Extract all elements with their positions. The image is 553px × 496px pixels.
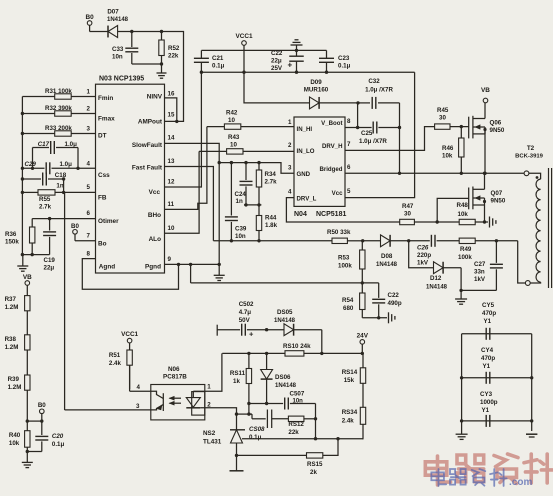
capacitor C21 0.1u <box>194 50 225 72</box>
node divider R40 <box>26 419 29 422</box>
svg-text:Y1: Y1 <box>484 318 492 325</box>
node pin2 RS11 <box>247 412 250 415</box>
resistor R39 1.2M <box>8 375 30 421</box>
svg-text:0.1μ: 0.1μ <box>52 441 65 448</box>
pin name Fast Fault <box>132 165 163 172</box>
node SlowFault row1 <box>218 161 221 164</box>
svg-text:R42: R42 <box>226 110 238 117</box>
wire Bo pin7 <box>75 240 96 242</box>
capacitor C20 0.1u <box>35 421 64 451</box>
resistor RS10 24k <box>283 343 311 356</box>
svg-text:T2: T2 <box>527 145 535 152</box>
svg-text:VB: VB <box>481 87 490 94</box>
node C29 left <box>31 167 34 170</box>
wire left rail <box>21 97 23 255</box>
pin name Css <box>98 172 110 179</box>
resistor R32 390k <box>22 105 96 116</box>
svg-text:C20: C20 <box>52 433 64 440</box>
svg-text:2.7k: 2.7k <box>265 179 278 186</box>
resistor R33 200k <box>22 125 96 136</box>
ground top rail <box>291 40 303 51</box>
svg-text:RS15: RS15 <box>307 461 323 468</box>
pin number 13 right <box>168 158 175 165</box>
svg-text:C17: C17 <box>38 141 50 148</box>
resistor RS15 2k <box>307 439 339 476</box>
resistor R42 10 <box>207 110 294 130</box>
capacitor CY5 470p Y1 <box>482 302 496 340</box>
ground Pgnd <box>214 264 225 280</box>
pin name Bo <box>98 241 107 248</box>
wire D12 cathode down <box>460 268 462 291</box>
svg-text:22μ: 22μ <box>44 265 55 272</box>
svg-text:VCC1: VCC1 <box>235 33 252 40</box>
node R36 bottom <box>31 253 34 256</box>
wire VCC1 drop <box>243 45 245 72</box>
wire Agnd pin8 <box>82 259 178 290</box>
wire row1 <box>219 163 294 174</box>
resistor R52 22k <box>159 32 180 65</box>
svg-text:CY4: CY4 <box>481 347 494 354</box>
ground D12 <box>455 290 467 304</box>
capacitor C27 33n 1kV <box>474 241 503 291</box>
terminal B0 divider <box>38 402 46 414</box>
capacitor C33 10n <box>112 32 138 65</box>
capacitor C32 1.0u/X7R <box>358 78 400 109</box>
wire opto pin1 <box>193 353 222 391</box>
svg-text:Bo: Bo <box>98 241 107 248</box>
pin name Pgnd <box>145 264 161 271</box>
pin name Fmin <box>98 95 113 102</box>
terminal B0 (pin7) <box>71 223 79 241</box>
node C502 right <box>265 328 268 331</box>
svg-text:8: 8 <box>347 118 351 125</box>
svg-text:R32 390k: R32 390k <box>45 105 72 112</box>
svg-text:R50 33k: R50 33k <box>327 229 351 236</box>
svg-text:22μ: 22μ <box>271 58 282 65</box>
wire VCC1 to D09 <box>244 72 310 103</box>
svg-text:N06: N06 <box>168 366 180 373</box>
svg-text:Bridged: Bridged <box>319 166 342 173</box>
pin name DRV_H <box>322 143 343 150</box>
resistor R54 680 <box>342 283 365 318</box>
wire snubber to T2 <box>518 241 526 283</box>
svg-text:490p: 490p <box>388 300 402 307</box>
node R44 bottom <box>257 239 260 242</box>
resistor R48 10k <box>437 202 488 225</box>
svg-text:R31 100k: R31 100k <box>45 88 72 95</box>
pin number 2 left <box>87 106 91 113</box>
svg-text:1N4148: 1N4148 <box>376 262 398 268</box>
optocoupler N06 PC817B <box>136 366 211 420</box>
ground left rail <box>17 255 28 272</box>
ground divider <box>22 452 33 468</box>
terminal B0 (top left) <box>86 14 95 32</box>
pin number 4 u2 <box>288 189 292 196</box>
wire RS15 row <box>237 454 307 456</box>
svg-text:AMPout: AMPout <box>138 119 163 126</box>
capacitor C18 1n <box>22 172 66 190</box>
svg-text:BCK-3919: BCK-3919 <box>515 154 544 160</box>
node row RS11 <box>247 352 250 355</box>
wire bootstrap to bridged <box>399 128 401 174</box>
svg-text:12: 12 <box>168 179 175 186</box>
svg-text:C23: C23 <box>338 55 350 62</box>
svg-text:1.2M: 1.2M <box>8 384 22 391</box>
wire Q07 source <box>484 205 486 222</box>
node R52 bottom <box>160 62 163 65</box>
node R54 bottom <box>377 316 380 319</box>
svg-text:R44: R44 <box>265 215 277 222</box>
svg-text:1N4148: 1N4148 <box>274 318 296 324</box>
wire opto pin2 <box>200 408 252 414</box>
resistor R50 33k <box>327 229 363 244</box>
svg-text:VB: VB <box>23 274 32 281</box>
svg-text:2.7k: 2.7k <box>39 204 52 211</box>
node RS12 right <box>314 417 317 420</box>
capacitor C39 10n <box>225 163 247 241</box>
svg-text:3: 3 <box>136 403 140 410</box>
wire vcc rail <box>201 71 414 73</box>
svg-text:C24: C24 <box>235 191 247 198</box>
svg-text:14: 14 <box>168 135 175 142</box>
svg-text:MUR160: MUR160 <box>304 87 329 94</box>
node gnd rail top <box>295 49 298 52</box>
svg-text:C27: C27 <box>474 261 486 268</box>
wire sec top row <box>222 352 363 354</box>
diode D08 1N4148 <box>363 235 409 268</box>
node row1 C39 <box>230 161 233 164</box>
svg-text:C29: C29 <box>25 161 37 168</box>
resistor RS12 22k <box>288 416 315 436</box>
capacitor C26 220p 1kV <box>409 235 460 267</box>
resistor R37 1.2M <box>5 285 30 335</box>
resistor R31 100k <box>22 88 96 99</box>
pin name Vcc u2 <box>332 190 343 197</box>
svg-text:Fast Fault: Fast Fault <box>132 165 163 172</box>
svg-text:0.1μ: 0.1μ <box>212 63 225 70</box>
svg-text:1.0μ /X7R: 1.0μ /X7R <box>365 87 393 94</box>
svg-text:100k: 100k <box>338 263 352 270</box>
node rail FB <box>21 191 24 194</box>
wire Q07 gate riser <box>437 198 469 222</box>
diode DS06 1N4148 <box>261 353 297 403</box>
wire C18 to FB <box>63 179 65 192</box>
svg-text:CY5: CY5 <box>482 302 495 309</box>
svg-text:1: 1 <box>207 384 211 391</box>
svg-text:DRV_L: DRV_L <box>297 195 317 202</box>
wire row2 <box>244 204 261 206</box>
svg-text:R51: R51 <box>109 352 121 359</box>
pin number 2 u2 <box>288 142 292 149</box>
svg-text:220p: 220p <box>417 252 431 259</box>
pin number 11 right <box>168 201 175 208</box>
svg-text:4: 4 <box>87 161 91 168</box>
svg-text:RS12: RS12 <box>288 421 304 428</box>
svg-text:R53: R53 <box>338 255 350 262</box>
svg-text:D09: D09 <box>310 79 322 86</box>
pin name IN_HI <box>297 126 313 133</box>
svg-text:R33 200k: R33 200k <box>45 125 72 132</box>
svg-text:D08: D08 <box>381 253 393 260</box>
resistor R40 10k <box>9 421 30 451</box>
svg-text:R47: R47 <box>402 203 414 210</box>
wire tl431 ref row <box>242 438 364 440</box>
wire FastFault riser <box>165 167 214 241</box>
svg-text:16: 16 <box>168 91 175 98</box>
svg-text:5: 5 <box>347 188 351 195</box>
wire C33/R52 bottom rail <box>132 63 162 65</box>
svg-text:7: 7 <box>87 233 91 240</box>
svg-text:Vcc: Vcc <box>332 190 343 197</box>
terminal VCC1 top <box>235 33 252 45</box>
svg-text:2: 2 <box>288 142 292 149</box>
svg-text:4.7μ: 4.7μ <box>239 309 252 316</box>
pin number 5 u2 <box>347 188 351 195</box>
node Q06 source bridged <box>483 172 486 175</box>
svg-text:3: 3 <box>288 165 292 172</box>
svg-text:1000p: 1000p <box>480 399 498 406</box>
resistor R45 30 <box>435 107 469 129</box>
wire C32 right riser <box>399 103 401 128</box>
svg-text:Q07: Q07 <box>491 190 503 197</box>
svg-text:R46: R46 <box>442 145 454 152</box>
wire D12 to C27 bottom <box>461 289 496 291</box>
svg-text:1N4148: 1N4148 <box>107 17 129 23</box>
svg-text:1n: 1n <box>236 198 243 205</box>
diode D12 1N4148 <box>409 241 461 291</box>
svg-text:1: 1 <box>87 89 91 96</box>
svg-text:Fmin: Fmin <box>98 95 113 102</box>
watermark blue text <box>431 469 532 488</box>
svg-text:FB: FB <box>98 195 107 202</box>
svg-text:30: 30 <box>404 211 411 218</box>
svg-text:1N4148: 1N4148 <box>275 383 297 389</box>
svg-text:R43: R43 <box>228 134 240 141</box>
node FB junction <box>62 191 65 194</box>
pin name ALo <box>149 236 162 243</box>
node D09 cathode <box>356 101 359 104</box>
svg-text:470p: 470p <box>481 355 495 362</box>
pin number 6 u2 <box>347 164 351 171</box>
svg-text:R39: R39 <box>8 376 20 383</box>
svg-text:10k: 10k <box>442 153 453 160</box>
capacitor C17 1.0u <box>33 141 79 154</box>
node rail bottom <box>21 253 24 256</box>
ground Y left <box>456 434 468 439</box>
svg-text:1k: 1k <box>233 378 240 385</box>
wire Pgnd pin9 <box>165 263 220 265</box>
terminal 24V <box>357 333 369 345</box>
svg-text:R49: R49 <box>460 246 472 253</box>
node rail C21 <box>200 71 203 74</box>
wire R51 to opto pin4 <box>130 365 151 391</box>
resistor R34 2.7k <box>256 163 277 205</box>
pin name DT <box>98 133 107 140</box>
svg-text:R40: R40 <box>9 432 21 439</box>
svg-text:6: 6 <box>347 164 351 171</box>
wire BHo riser <box>165 127 207 210</box>
tl431 NS2 <box>203 414 245 455</box>
watermark red text <box>425 454 552 485</box>
svg-text:CS08: CS08 <box>249 426 265 433</box>
wire C17 right stub <box>77 148 79 169</box>
svg-text:Y1: Y1 <box>482 407 490 414</box>
svg-text:RS10 24k: RS10 24k <box>283 343 311 350</box>
svg-text:1.0μ: 1.0μ <box>60 161 73 168</box>
wire Q06 source to bridged <box>484 130 486 174</box>
capacitor C29 1.0u <box>22 161 95 174</box>
svg-text:8: 8 <box>87 251 91 258</box>
svg-text:IN_LO: IN_LO <box>297 148 315 155</box>
svg-text:1.0μ: 1.0μ <box>65 141 78 148</box>
node ref RS12 <box>314 437 317 440</box>
svg-text:10k: 10k <box>458 211 469 218</box>
svg-text:RS14: RS14 <box>342 369 358 376</box>
svg-text:C39: C39 <box>235 226 247 233</box>
svg-text:DS05: DS05 <box>277 309 293 316</box>
svg-text:10: 10 <box>228 117 235 124</box>
svg-text:NS2: NS2 <box>203 430 216 437</box>
pin number 16 right <box>168 91 175 98</box>
svg-text:2k: 2k <box>310 469 317 476</box>
pin number 3 u2 <box>288 165 292 172</box>
pin number 4 left <box>87 161 91 168</box>
svg-text:NCP5181: NCP5181 <box>316 211 346 218</box>
pin number 9 right <box>168 256 172 263</box>
svg-text:10: 10 <box>168 225 175 232</box>
svg-text:Vcc: Vcc <box>149 189 161 196</box>
svg-text:22k: 22k <box>288 429 299 436</box>
svg-text:13: 13 <box>168 158 175 165</box>
svg-text:GND: GND <box>297 171 311 178</box>
wire comp line <box>191 264 379 283</box>
svg-text:680: 680 <box>343 305 354 312</box>
svg-text:.com: .com <box>509 477 532 488</box>
svg-text:10n: 10n <box>235 233 246 240</box>
wire fb to opto pin3 <box>65 409 151 411</box>
wire Y cap box <box>462 334 532 434</box>
svg-text:3: 3 <box>87 126 91 133</box>
svg-text:RS34: RS34 <box>342 409 358 416</box>
resistor R53 100k <box>338 241 365 283</box>
wire AMPout riser <box>162 32 184 122</box>
svg-text:V_Boot: V_Boot <box>321 120 342 127</box>
svg-text:BHo: BHo <box>148 212 161 219</box>
node NINV-AMPout <box>175 120 178 123</box>
node tl431 anode <box>235 454 238 457</box>
node row2 C24 <box>244 203 247 206</box>
svg-text:R37: R37 <box>5 296 17 303</box>
svg-text:1kV: 1kV <box>417 260 429 267</box>
svg-text:0.1μ: 0.1μ <box>338 63 351 70</box>
svg-text:C19: C19 <box>44 257 56 264</box>
resistor R55 2.7k <box>22 190 96 211</box>
svg-text:PC817B: PC817B <box>163 374 187 381</box>
node rail pin3 <box>21 132 24 135</box>
node C18 right <box>62 177 65 180</box>
wire bottom left gnd rail <box>22 254 49 256</box>
wire Vcc5 riser <box>345 72 415 197</box>
pin name Fmax <box>98 116 115 123</box>
resistor R36 150k <box>5 219 35 255</box>
wire DRV_L loop <box>286 198 399 222</box>
svg-text:9N50: 9N50 <box>491 198 506 205</box>
svg-text:50V: 50V <box>239 317 251 324</box>
pin name FB <box>98 195 107 202</box>
node divider gnd <box>26 450 29 453</box>
svg-text:DS06: DS06 <box>275 374 291 381</box>
node C22 rail <box>295 71 298 74</box>
node C25 right <box>398 126 401 129</box>
svg-text:C25: C25 <box>361 130 373 137</box>
resistor RS11 1k <box>230 353 252 414</box>
svg-text:ALo: ALo <box>149 236 162 243</box>
ground near R52 <box>157 64 167 78</box>
svg-text:B0: B0 <box>71 223 79 230</box>
pin number 12 right <box>168 179 175 186</box>
svg-text:IN_HI: IN_HI <box>297 126 313 133</box>
node CY3 right <box>530 419 533 422</box>
wire D07 to R52 <box>132 31 162 33</box>
svg-text:10n: 10n <box>293 398 304 404</box>
svg-text:C502: C502 <box>239 301 254 308</box>
resistor R51 2.4k <box>109 343 132 389</box>
svg-text:R55: R55 <box>39 196 51 203</box>
diode D09 MUR160 <box>304 79 358 109</box>
svg-text:R52: R52 <box>168 45 180 52</box>
pin name SlowFault <box>132 142 163 149</box>
svg-text:N03 NCP1395: N03 NCP1395 <box>99 76 144 83</box>
svg-text:N04: N04 <box>294 211 307 218</box>
ground Q07 source <box>490 217 496 228</box>
pin number 7 u2 <box>347 141 351 148</box>
pin name DRV_L <box>297 195 317 202</box>
node C507 RS11 <box>247 402 250 405</box>
node R53 R54 <box>361 281 364 284</box>
wire Otimer <box>32 218 96 220</box>
wire R54 C22b bottom <box>362 317 387 319</box>
node Otimer <box>48 217 51 220</box>
node D12 gnd <box>459 289 462 292</box>
svg-text:R34: R34 <box>265 171 277 178</box>
node R52 top <box>160 30 163 33</box>
node C33 top <box>130 30 133 33</box>
node rail Css <box>21 167 24 170</box>
node R46 bottom <box>460 172 463 175</box>
svg-text:+: + <box>288 61 293 70</box>
svg-text:9: 9 <box>168 256 172 263</box>
node row1 R34 <box>257 161 260 164</box>
wire C507 row <box>249 403 283 405</box>
resistor R46 10k <box>442 127 464 174</box>
capacitor C23 0.1u <box>319 50 351 72</box>
svg-text:15k: 15k <box>344 377 355 384</box>
svg-text:B0: B0 <box>86 14 95 21</box>
node row 24V <box>361 352 364 355</box>
wire feedback line <box>213 240 332 242</box>
capacitor C22b 490p <box>372 283 402 318</box>
node row1 C24 <box>244 161 247 164</box>
resistor R47 30 <box>400 203 438 225</box>
node CY3 left <box>460 419 463 422</box>
wire tl431 bottom <box>236 455 238 470</box>
svg-text:2: 2 <box>87 106 91 113</box>
wire C17 left stub <box>32 148 34 169</box>
node CY4 left <box>460 376 463 379</box>
node ref RS15 <box>336 437 339 440</box>
svg-text:TL431: TL431 <box>203 439 222 446</box>
svg-text:1kV: 1kV <box>474 276 486 283</box>
